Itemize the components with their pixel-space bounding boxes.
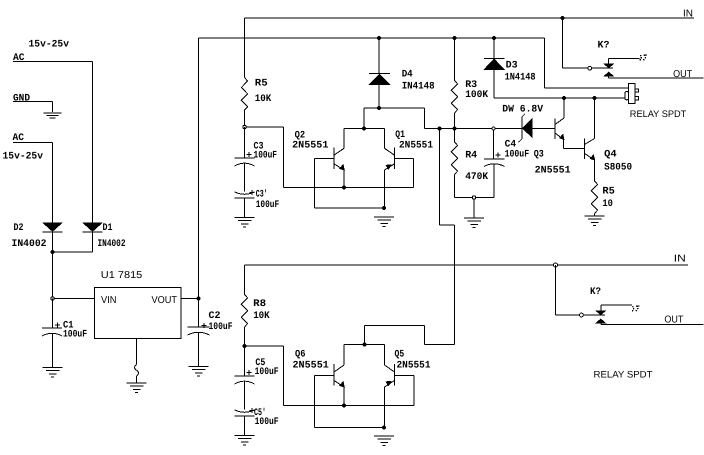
svg-text:Q4: Q4 xyxy=(604,150,617,161)
svg-text:2N5551: 2N5551 xyxy=(535,166,571,177)
svg-text:Q5: Q5 xyxy=(395,350,405,361)
wire Q2 base to ground rail xyxy=(315,159,385,209)
svg-text:AC: AC xyxy=(13,53,25,64)
svg-text:100uF: 100uF xyxy=(505,150,529,161)
svg-text:R5: R5 xyxy=(602,187,615,198)
capacitor C5 label xyxy=(255,358,279,378)
node AC bottom xyxy=(13,133,25,144)
diode D1 label xyxy=(98,223,126,250)
wire relay2 OUT xyxy=(601,323,704,324)
ground lower pair xyxy=(374,436,394,446)
node rail1 relay junction xyxy=(561,16,565,20)
resistor R4 label xyxy=(465,151,488,184)
resistor R5 label xyxy=(255,79,271,106)
wire relay2 common feed xyxy=(556,265,580,315)
svg-text:D2: D2 xyxy=(14,223,24,234)
capacitor C2 label xyxy=(209,311,233,333)
svg-text:D4: D4 xyxy=(402,70,413,81)
wire AC1 to D1 xyxy=(13,62,93,223)
ground C3' xyxy=(235,218,255,228)
ground R5 10ohm xyxy=(585,216,605,226)
resistor R4 xyxy=(451,129,457,198)
zener DW label xyxy=(502,105,543,116)
svg-text:R4: R4 xyxy=(465,151,477,162)
node OUT label top xyxy=(673,69,692,80)
resistor R3 xyxy=(451,38,457,129)
svg-text:2N5551: 2N5551 xyxy=(399,141,433,152)
transistor Q3 xyxy=(555,98,585,149)
svg-text:OUT: OUT xyxy=(664,315,683,326)
resistor R8 label xyxy=(253,299,270,322)
capacitor C5' label xyxy=(254,407,279,428)
relay2 label xyxy=(594,370,653,381)
zener diode DW xyxy=(518,114,555,143)
svg-text:1N4148: 1N4148 xyxy=(505,73,536,84)
regulator U1 7815 label xyxy=(101,270,143,281)
node GND label xyxy=(13,94,30,105)
node mini-rail junction xyxy=(362,127,366,131)
wire R8 bottom to junction xyxy=(245,327,284,406)
wire cross link to lower pair xyxy=(365,129,455,345)
svg-text:10K: 10K xyxy=(255,94,271,105)
svg-text:2N5551: 2N5551 xyxy=(293,361,329,372)
node junction diodes xyxy=(51,250,55,254)
svg-text:S8050: S8050 xyxy=(604,163,632,174)
relay1 label xyxy=(630,109,687,120)
relay K? label top xyxy=(598,41,610,52)
diode D1 xyxy=(83,223,103,233)
svg-text:VOUT: VOUT xyxy=(152,295,178,306)
capacitor C3' xyxy=(235,190,255,218)
node rail2 R3 junction xyxy=(453,36,457,40)
capacitor C5 xyxy=(235,346,255,410)
node Q4 collector junction xyxy=(593,96,597,100)
capacitor C3' label xyxy=(256,189,280,212)
wire collector mini-rail top xyxy=(344,128,385,130)
relay contact common bottom xyxy=(580,313,584,317)
svg-text:2N5551: 2N5551 xyxy=(292,141,328,152)
wire emitter rail lower pair xyxy=(284,405,415,407)
resistor R3 label xyxy=(465,80,488,101)
wire rail1 top xyxy=(245,18,695,78)
wire Q6 base to ground rail xyxy=(315,376,385,428)
node AC1 label 15v-25v xyxy=(29,40,70,51)
svg-text:C3': C3' xyxy=(256,189,268,201)
relay coil terminal block top xyxy=(625,84,638,104)
svg-text:470K: 470K xyxy=(465,172,488,183)
svg-text:VIN: VIN xyxy=(101,295,117,306)
svg-text:100uF: 100uF xyxy=(63,330,87,341)
ground top pair xyxy=(374,217,394,227)
svg-text:C2: C2 xyxy=(209,311,221,322)
node rail2 D4 junction xyxy=(377,36,381,40)
relay2 NO terminal mark xyxy=(632,306,640,312)
wire rectifier output join xyxy=(53,232,93,252)
wire relay1 OUT xyxy=(609,76,704,78)
svg-text:U1 7815: U1 7815 xyxy=(101,270,143,281)
ground R4-C4 xyxy=(464,218,484,228)
node IN label bottom xyxy=(674,254,686,265)
capacitor C2 xyxy=(188,299,210,367)
svg-text:K?: K? xyxy=(590,287,601,298)
node Q6 emitter junction xyxy=(342,404,346,408)
svg-text:100uF: 100uF xyxy=(209,322,233,333)
node Q3 collector junction xyxy=(562,96,566,100)
relay contact armature bottom xyxy=(583,311,606,324)
svg-text:OUT: OUT xyxy=(673,69,692,80)
wire collector rail top xyxy=(364,108,455,129)
relay1 NO terminal mark xyxy=(640,55,648,61)
resistor R8 xyxy=(241,295,247,327)
wire zener rail xyxy=(455,128,522,130)
resistor R5 xyxy=(241,78,247,110)
svg-text:15v-25v: 15v-25v xyxy=(29,40,70,51)
capacitor C3 xyxy=(235,127,255,192)
wire to VIN xyxy=(53,252,95,299)
capacitor C3 label xyxy=(254,142,278,162)
node AC2 label 15v-25v xyxy=(3,152,44,163)
wire relay coil drive rail xyxy=(494,97,626,99)
wire rail2 +15V distribution xyxy=(199,38,629,88)
svg-text:100uF: 100uF xyxy=(254,151,278,162)
capacitor C4 xyxy=(484,130,505,198)
wire AC2 to D2 xyxy=(13,143,53,223)
svg-text:Q1: Q1 xyxy=(395,130,405,141)
wire U1 ground lead with squiggle xyxy=(135,339,139,384)
wire emitter rail top pair xyxy=(284,187,414,189)
capacitor C1 label xyxy=(63,321,87,341)
svg-text:15v-25v: 15v-25v xyxy=(3,152,44,163)
svg-text:R8: R8 xyxy=(253,299,266,310)
relay contact common top xyxy=(588,66,592,70)
wire GND lead xyxy=(13,102,53,113)
transistor Q5 xyxy=(385,345,415,428)
node R3-R4 junction xyxy=(453,127,457,131)
wire relay2 NO contact xyxy=(601,305,632,311)
wire lower IN rail xyxy=(245,265,689,295)
diode D3 label xyxy=(505,61,536,84)
ground C2 xyxy=(189,367,209,377)
node ground junction top pair xyxy=(382,206,386,210)
svg-text:IN4148: IN4148 xyxy=(402,82,435,93)
node C4 junction xyxy=(492,127,495,130)
svg-text:2N5551: 2N5551 xyxy=(397,361,431,372)
transistor Q2 label xyxy=(292,131,328,152)
wire collector mini-rail lower xyxy=(344,344,385,346)
svg-text:10: 10 xyxy=(602,199,613,210)
transistor Q6 label xyxy=(293,350,329,372)
diode D3 xyxy=(484,38,505,98)
capacitor C4 label xyxy=(505,140,529,161)
transistor Q4 xyxy=(585,98,595,181)
node R8-C5 junction xyxy=(243,344,247,348)
wire VOUT xyxy=(181,298,199,300)
diode D4 xyxy=(369,38,390,108)
node VOUT junction xyxy=(197,297,201,301)
relay contact armature top xyxy=(592,64,614,77)
transistor Q4 label xyxy=(604,150,632,174)
svg-text:100uF: 100uF xyxy=(256,200,280,211)
wire R5 bottom to junction xyxy=(245,110,284,188)
svg-text:IN4002: IN4002 xyxy=(98,239,126,250)
node lower IN relay junction xyxy=(554,263,558,267)
svg-text:D3: D3 xyxy=(506,61,518,72)
relay K? label bottom xyxy=(590,287,601,298)
svg-text:10K: 10K xyxy=(253,311,270,322)
svg-text:R5: R5 xyxy=(255,79,268,90)
capacitor C5' xyxy=(235,408,255,436)
node mini-rail junction lower xyxy=(363,343,367,347)
transistor Q1 label xyxy=(395,130,433,152)
svg-text:100K: 100K xyxy=(465,90,488,101)
ground C5' xyxy=(235,436,255,446)
node AC top xyxy=(13,53,25,64)
resistor R5 10ohm xyxy=(591,181,597,213)
ground GND input xyxy=(44,113,62,118)
svg-text:RELAY SPDT: RELAY SPDT xyxy=(630,109,687,120)
node ground junction lower pair xyxy=(382,426,386,430)
wire relay1 NO contact xyxy=(609,59,640,64)
wire VOUT riser to top rail xyxy=(198,38,200,299)
transistor Q2 xyxy=(315,129,345,188)
wire R4 bottom rail xyxy=(455,197,495,199)
svg-text:IN: IN xyxy=(683,9,693,20)
svg-text:Q3: Q3 xyxy=(534,150,544,161)
svg-text:Q6: Q6 xyxy=(295,350,306,361)
node D4 junction xyxy=(377,106,381,110)
node ground junction R4-C4 xyxy=(472,196,475,199)
transistor Q5 label xyxy=(395,350,431,372)
ground C1 xyxy=(43,368,63,378)
svg-text:D1: D1 xyxy=(103,223,113,234)
svg-text:IN4002: IN4002 xyxy=(12,239,47,250)
wire ground drop R4-C4 xyxy=(473,199,475,217)
node IN label top xyxy=(683,9,693,20)
node rail2 D3 junction xyxy=(492,36,496,40)
transistor Q6 xyxy=(315,345,345,406)
svg-text:IN: IN xyxy=(674,254,686,265)
regulator U1 box xyxy=(95,288,182,339)
svg-text:K?: K? xyxy=(598,41,610,52)
transistor Q3 label xyxy=(534,150,571,177)
svg-text:RELAY SPDT: RELAY SPDT xyxy=(594,370,653,381)
node OUT label bottom xyxy=(664,315,683,326)
svg-text:GND: GND xyxy=(13,94,30,105)
resistor R5 10ohm label xyxy=(602,187,615,211)
diode D2 xyxy=(43,223,63,233)
node R5-C3 junction xyxy=(243,125,246,128)
capacitor C1 xyxy=(42,299,62,368)
diode D4 label xyxy=(402,70,435,93)
svg-text:100uF: 100uF xyxy=(255,417,279,428)
svg-text:DW 6.8V: DW 6.8V xyxy=(502,105,543,116)
ground U1 xyxy=(127,383,147,393)
svg-text:100uF: 100uF xyxy=(255,367,279,378)
wire relay1 common feed xyxy=(563,18,588,68)
diode D2 label xyxy=(12,223,47,250)
node link junction A xyxy=(438,127,442,131)
node VIN junction xyxy=(51,297,54,300)
transistor Q1 xyxy=(385,129,414,209)
node Q2 emitter junction xyxy=(342,186,346,190)
